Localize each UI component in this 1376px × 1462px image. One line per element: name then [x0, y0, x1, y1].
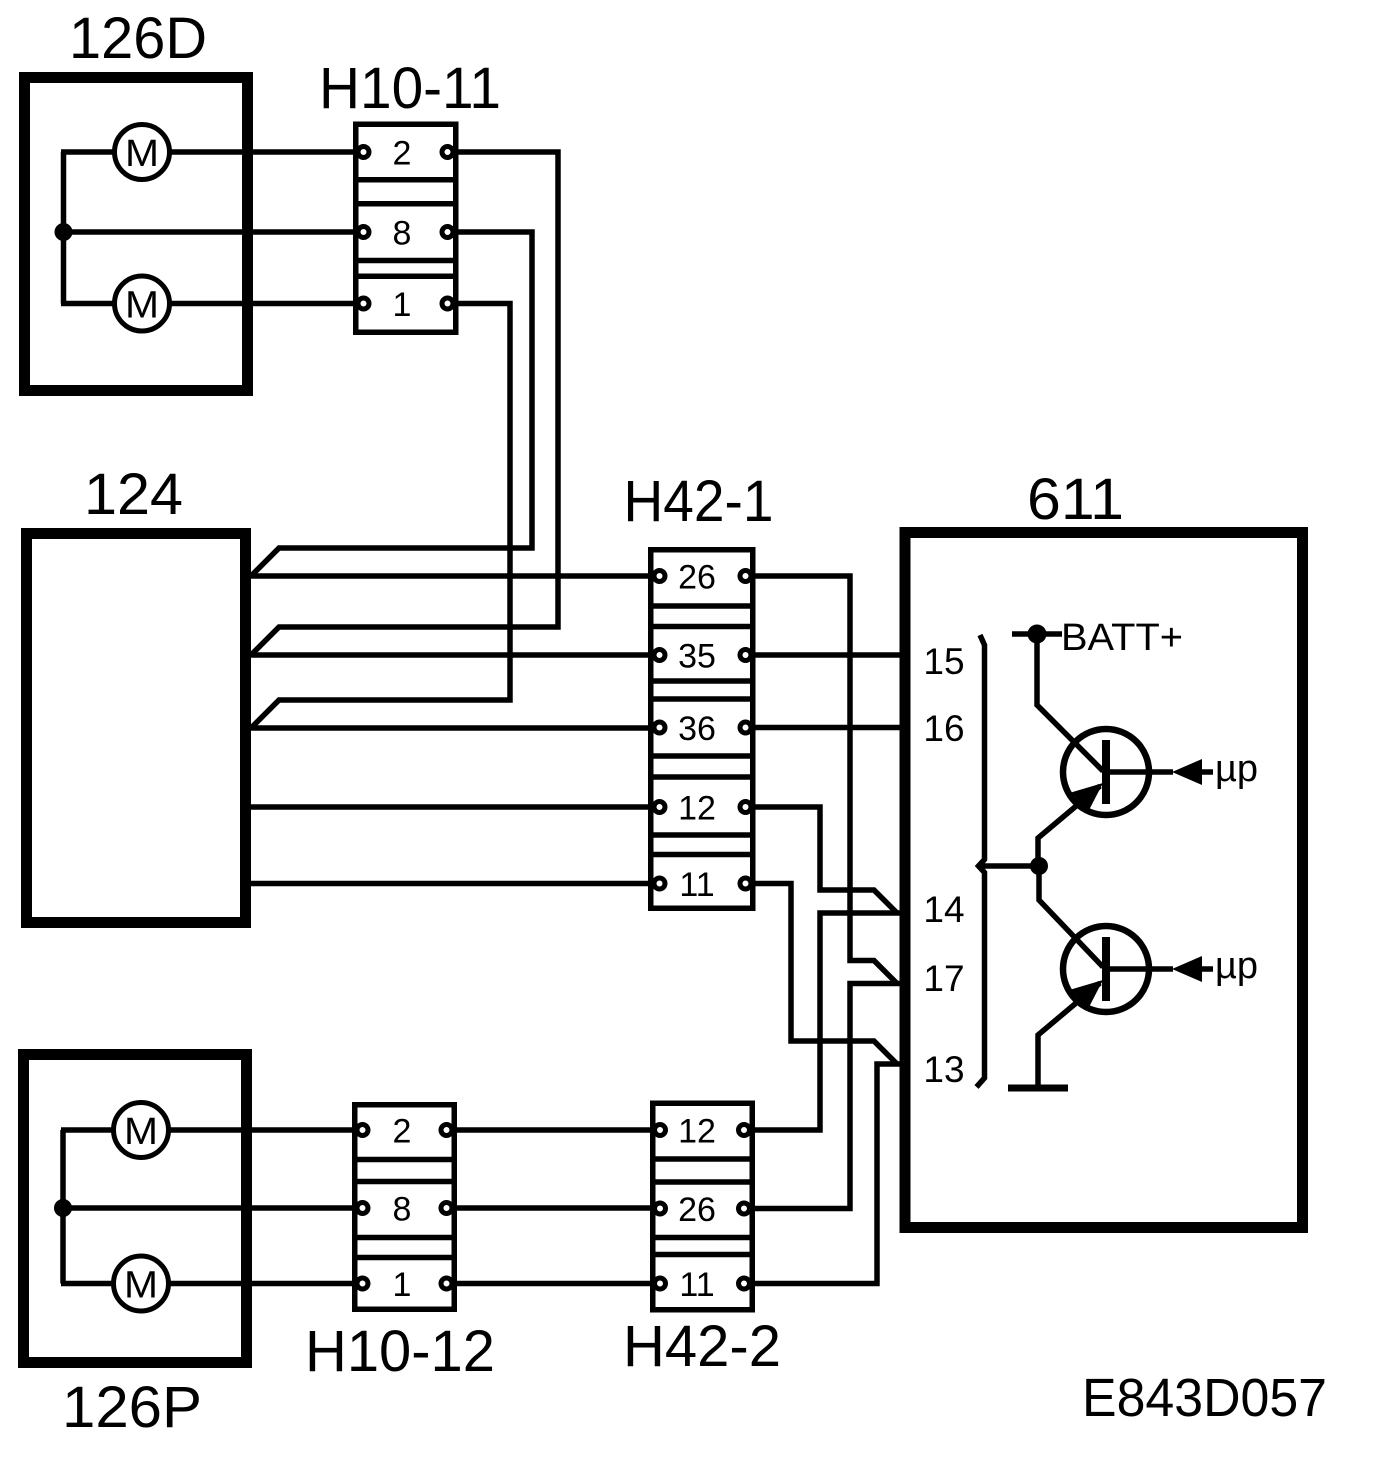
- H42-1 pin 11: [654, 878, 665, 889]
- wire H10-12 pin 2 to H42-2 pin 12: [452, 1127, 654, 1133]
- transistor Q1 collector lead with arrow: [1038, 786, 1100, 866]
- svg-text:H10-12: H10-12: [305, 1319, 495, 1384]
- wire brace point to junction node: [979, 863, 1040, 869]
- wire H42-2 pin 12 to 611 pin 14: [750, 913, 901, 1130]
- wire M1 left: [61, 149, 114, 155]
- motor M4 (126P bottom): [114, 1256, 169, 1311]
- wire H42-2 pin 26 to 611 pin 17: [750, 984, 901, 1209]
- motor M2 (126D bottom): [115, 276, 170, 331]
- wire 124 to H42-1 pin 36: [251, 725, 648, 731]
- H10-11 pin 2: [358, 147, 369, 158]
- svg-text:µp: µp: [1215, 945, 1258, 987]
- svg-text:12: 12: [678, 790, 716, 828]
- wire H42-1 pin 35 to 611 pin 15: [753, 652, 901, 658]
- svg-text:H10-11: H10-11: [319, 56, 501, 121]
- svg-text:16: 16: [923, 708, 964, 749]
- motor M1 (126D top): [115, 125, 170, 180]
- wire H42-1 pin 11 to 611 pin 13: [753, 884, 897, 1065]
- wire H10-12 pin 8 to H42-2 pin 26: [452, 1205, 654, 1211]
- component box 126D: [25, 78, 248, 391]
- wire junction to H10-11 pin 8: [64, 229, 358, 235]
- connector H10-11: [356, 124, 456, 332]
- component box 124: [27, 534, 246, 923]
- svg-text:26: 26: [678, 1191, 716, 1229]
- transistor Q2 base bar: [1102, 937, 1110, 1001]
- wire Q1 base to microprocessor: [1110, 769, 1213, 775]
- motor M3 (126P top): [114, 1103, 169, 1158]
- svg-text:126P: 126P: [62, 1375, 202, 1440]
- svg-text:E843D057: E843D057: [1082, 1368, 1327, 1428]
- svg-text:8: 8: [393, 1191, 412, 1229]
- wire M3 to H10-12 pin 2: [169, 1127, 356, 1133]
- node BATT+ dot: [1028, 625, 1047, 644]
- H10-12 pin 1: [357, 1278, 368, 1289]
- transistor Q2: [1063, 926, 1149, 1012]
- svg-text:12: 12: [678, 1113, 716, 1151]
- transistor Q1: [1063, 729, 1149, 815]
- wire M2 to H10-11 pin 1: [170, 301, 357, 307]
- wire H10-11 pin 8 to 124 (via x532): [251, 232, 532, 576]
- wire M4 left: [61, 1281, 113, 1287]
- H10-11 pin 1: [358, 298, 369, 309]
- H10-12 pin 2: [357, 1125, 368, 1136]
- wire 124 to H42-1 pin 26: [251, 573, 648, 579]
- svg-text:11: 11: [679, 866, 714, 904]
- H42-2 pin 12: [655, 1125, 666, 1136]
- wire 124 to H42-1 pin 11: [251, 881, 648, 887]
- ground: [1008, 1085, 1068, 1092]
- svg-text:26: 26: [678, 559, 716, 597]
- wire 124 to H42-1 pin 12: [251, 804, 648, 810]
- wire M1 to H10-11 pin 2: [170, 149, 357, 155]
- H42-1 pin 12: [654, 802, 665, 813]
- svg-text:14: 14: [923, 889, 964, 930]
- wire H42-2 pin 11 to 611 pin 13: [750, 1064, 901, 1284]
- svg-text:15: 15: [923, 641, 964, 682]
- wire H42-1 pin 26 to 611 pin 17: [753, 576, 897, 984]
- wire 124 to H42-1 pin 35: [251, 652, 648, 658]
- wire BATT+ stub: [1012, 631, 1062, 637]
- svg-text:M: M: [125, 284, 159, 326]
- svg-text:126D: 126D: [69, 6, 207, 71]
- H42-1 divider lines: [648, 606, 756, 855]
- svg-text:611: 611: [1027, 467, 1124, 532]
- svg-text:124: 124: [84, 462, 183, 527]
- svg-text:µp: µp: [1215, 748, 1258, 790]
- junction dot 126D: [55, 223, 73, 241]
- svg-text:H42-2: H42-2: [623, 1314, 781, 1379]
- H42-1 pin 26: [654, 571, 665, 582]
- wire 126P internal vertical: [60, 1130, 66, 1284]
- wire M2 left: [61, 301, 114, 307]
- H42-2 divider lines: [650, 1159, 755, 1255]
- wire H10-11 pin 1 to 124 (via x510): [251, 304, 510, 729]
- connector H10-12: [355, 1105, 455, 1310]
- brace grouping 611 pins: [977, 635, 985, 1087]
- wire M4 to H10-12 pin 1: [169, 1281, 356, 1287]
- svg-text:1: 1: [393, 1266, 412, 1304]
- component box 126P: [24, 1055, 247, 1363]
- H42-1 pin 35: [654, 650, 665, 661]
- svg-text:H42-1: H42-1: [624, 469, 774, 534]
- H10-11 divider lines: [353, 180, 459, 277]
- svg-text:17: 17: [923, 958, 964, 999]
- wire Q2 base to microprocessor: [1110, 966, 1213, 972]
- H10-12 divider lines: [352, 1160, 457, 1258]
- wire junction to H10-12 pin 8: [63, 1205, 356, 1211]
- svg-text:M: M: [124, 1264, 158, 1306]
- wire 126D internal vertical: [61, 152, 67, 304]
- wire M3 left: [61, 1127, 113, 1133]
- svg-text:35: 35: [678, 638, 716, 676]
- wire H10-12 pin 1 to H42-2 pin 11: [452, 1281, 654, 1287]
- connector H42-1: [651, 550, 753, 909]
- transistor Q2 emitter lead with arrow: [1038, 983, 1100, 1086]
- wire H42-1 pin 12 to 611 pin 14: [753, 807, 897, 913]
- H42-2 pin 11: [655, 1278, 666, 1289]
- arrow to microprocessor (lower): [1172, 956, 1202, 982]
- arrow to microprocessor (upper): [1172, 759, 1202, 785]
- H42-2 pin 26: [655, 1203, 666, 1214]
- component box 611 (ECU): [905, 533, 1303, 1228]
- svg-text:2: 2: [393, 1113, 412, 1151]
- svg-text:1: 1: [393, 286, 412, 324]
- junction dot 126P: [54, 1199, 72, 1217]
- wire Q2 collector lead from node: [1039, 866, 1103, 967]
- H10-12 pin 8: [357, 1203, 368, 1214]
- svg-text:8: 8: [393, 215, 412, 253]
- H42-1 pin 36: [654, 722, 665, 733]
- connector H42-2: [653, 1103, 753, 1310]
- wire H10-11 pin 2 to 124 (via x558): [251, 152, 558, 655]
- svg-text:BATT+: BATT+: [1061, 617, 1183, 659]
- wire H42-1 pin 36 to 611 pin 16: [753, 725, 901, 731]
- svg-text:2: 2: [393, 135, 412, 173]
- svg-text:M: M: [124, 1111, 158, 1153]
- H10-11 pin 8: [358, 227, 369, 238]
- wire Q1 emitter lead from BATT+: [1037, 634, 1103, 771]
- svg-text:36: 36: [678, 710, 716, 748]
- transistor Q1 base bar: [1102, 740, 1110, 804]
- svg-text:13: 13: [923, 1049, 964, 1090]
- svg-text:11: 11: [679, 1266, 714, 1304]
- node junction dot (collector join): [1030, 857, 1048, 875]
- svg-text:M: M: [125, 133, 159, 175]
